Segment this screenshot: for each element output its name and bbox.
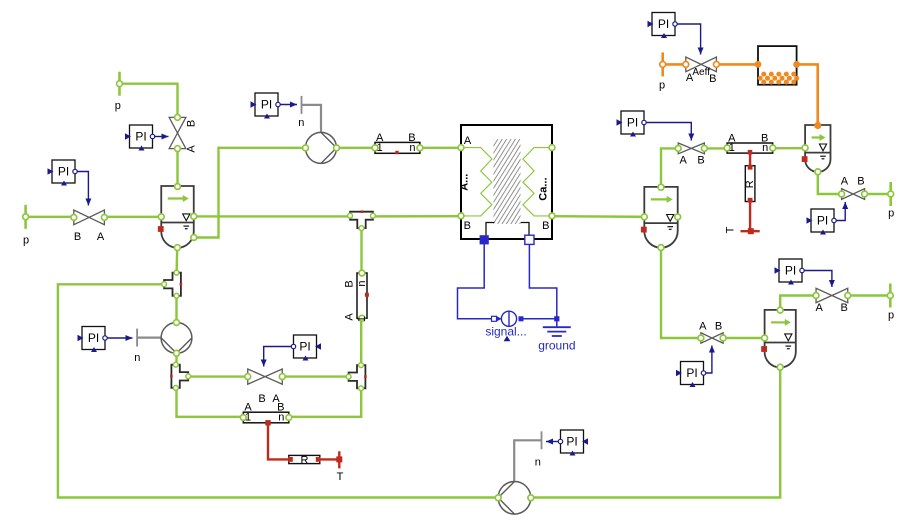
svg-text:1: 1	[356, 316, 368, 322]
sensor PI5	[546, 430, 588, 456]
pipe L1	[372, 132, 423, 154]
wire heat exchanger port B right to header H2	[552, 215, 644, 218]
svg-text:B: B	[258, 393, 265, 405]
svg-text:B: B	[74, 231, 81, 243]
svg-text:n: n	[278, 412, 284, 424]
svg-text:PI: PI	[58, 165, 69, 179]
sensor PI6	[261, 335, 321, 367]
svg-text:PI: PI	[817, 214, 828, 228]
svg-text:B: B	[697, 154, 704, 166]
sensor PI11	[775, 259, 835, 287]
svg-text:R: R	[744, 180, 756, 188]
svg-text:n: n	[298, 117, 304, 129]
wire header H1 top to valve V2	[176, 149, 178, 187]
svg-text:1: 1	[729, 142, 735, 154]
thermal resistor R1	[744, 150, 756, 231]
svg-text:R: R	[301, 454, 309, 466]
sink p6	[887, 284, 894, 322]
svg-text:PI: PI	[627, 116, 638, 130]
svg-text:PI: PI	[658, 17, 669, 31]
svg-text:p: p	[23, 235, 29, 247]
pipe L3	[724, 133, 775, 155]
svg-text:B: B	[186, 120, 198, 127]
sensor PI1	[48, 160, 92, 206]
svg-text:n: n	[535, 457, 541, 469]
source p3	[659, 52, 666, 91]
tank	[755, 46, 800, 85]
source p2	[115, 72, 123, 112]
svg-text:A: A	[841, 175, 849, 187]
svg-text:A: A	[680, 154, 688, 166]
sink p4	[888, 182, 894, 220]
wire valve V8 to tank	[716, 63, 758, 66]
wire flow join T1 to heat exchanger port B left	[373, 215, 461, 218]
svg-text:PI: PI	[785, 264, 796, 278]
header H5	[761, 307, 796, 370]
svg-text:n: n	[356, 280, 368, 286]
svg-text:p: p	[888, 208, 894, 220]
wire valve V6 to sink p6	[848, 294, 891, 296]
svg-text:p: p	[115, 100, 121, 112]
wire p1 to valve V1	[26, 216, 74, 218]
wire heat exchanger pin to signal current source	[458, 244, 492, 319]
svg-text:n: n	[134, 352, 140, 364]
sensor PI4	[78, 327, 133, 353]
wire header H5 top to valve V6	[780, 296, 816, 311]
svg-text:PI: PI	[299, 340, 310, 354]
svg-text:B: B	[542, 220, 549, 232]
valve V7	[675, 143, 707, 166]
header H4	[802, 122, 831, 175]
wire header H2 bottom to valve V5	[661, 248, 701, 338]
wire valve V4 to sink p4	[865, 193, 891, 195]
fixed temperature T2	[336, 451, 343, 483]
flow join T3	[170, 362, 191, 390]
wire header H2 top to valve V7	[661, 148, 678, 187]
svg-text:p: p	[888, 310, 894, 322]
svg-text:A: A	[699, 320, 707, 332]
svg-text:T: T	[725, 226, 737, 233]
sensor PI9	[807, 202, 849, 235]
valve V4	[839, 175, 868, 199]
wire header H1 right to flow join T1	[194, 215, 350, 217]
svg-text:B: B	[464, 220, 471, 232]
wire pipe L3 to header H4	[773, 147, 805, 149]
wire pipe L4 to flow join T4 bottom	[289, 388, 361, 416]
svg-text:PI: PI	[135, 130, 146, 144]
flow join T2	[162, 270, 183, 298]
signal current source	[485, 311, 526, 341]
sensor PI3	[251, 93, 298, 119]
svg-text:p: p	[659, 80, 665, 92]
svg-text:A: A	[464, 135, 472, 147]
svg-text:PI: PI	[261, 98, 272, 112]
sensor PI7	[617, 111, 695, 141]
header H2	[641, 184, 681, 250]
wire valve V1 to header H1	[104, 216, 161, 218]
svg-text:A: A	[343, 313, 355, 321]
wire valve V3 to flow join T4	[282, 375, 349, 377]
svg-text:PI: PI	[686, 366, 697, 380]
svg-text:B: B	[715, 320, 722, 332]
wire header H1 bottom to flow join T2	[175, 248, 178, 273]
svg-text:PI: PI	[88, 331, 99, 345]
wire signal current source to ground node	[524, 318, 557, 320]
pipe L4	[240, 402, 291, 426]
wire valve V2 to source p2	[120, 84, 178, 118]
wire flow join T3 to pipe L4	[177, 387, 244, 416]
fixed temperature T1	[725, 226, 760, 234]
svg-text:A: A	[816, 302, 824, 314]
svg-text:B: B	[343, 280, 355, 287]
source p1	[23, 205, 29, 247]
svg-text:B: B	[841, 302, 848, 314]
wire pipe L1 to heat exchanger port A	[420, 147, 461, 149]
sensor PI2	[125, 125, 169, 151]
sensor PI10	[676, 346, 715, 388]
wire pump P3 to header H5 bottom	[531, 367, 780, 497]
wire pipe L2 to flow join T1 stem	[360, 228, 362, 272]
svg-text:Ca...: Ca...	[538, 177, 550, 200]
wire tank to header H4 top	[797, 64, 818, 125]
wire pump P2 to flow join T3	[175, 353, 177, 365]
svg-text:A: A	[186, 145, 198, 153]
svg-text:T: T	[337, 471, 344, 483]
ground	[538, 316, 575, 352]
svg-text:n: n	[762, 142, 768, 154]
svg-text:A: A	[97, 231, 105, 243]
wire valve V7 to pipe L3	[704, 147, 727, 149]
wire flow join T2 to pump P2	[175, 296, 177, 323]
wire pump P1 to pipe L1	[337, 147, 376, 149]
flow join T4	[346, 363, 367, 391]
svg-text:signal...: signal...	[485, 325, 526, 339]
svg-text:PI: PI	[566, 435, 577, 449]
heat exchanger U1	[440, 125, 572, 244]
wire header H4 bottom to valve V4	[818, 172, 842, 194]
svg-text:A: A	[686, 72, 694, 84]
valve V6	[813, 288, 851, 314]
wire header H1 to pump P1 suction	[194, 148, 306, 238]
pump P1	[298, 96, 339, 163]
svg-text:B: B	[857, 175, 864, 187]
wire flow join T2 left down around to pump P3	[58, 284, 498, 497]
valve V3	[245, 369, 285, 405]
wire flow join T3 to valve V3	[188, 375, 248, 377]
valve V1	[71, 210, 107, 243]
svg-text:1: 1	[245, 412, 251, 424]
header H1	[158, 184, 197, 251]
svg-text:B: B	[709, 73, 716, 85]
wire source p3 to valve V8	[663, 63, 686, 66]
svg-text:Aeff: Aeff	[692, 67, 710, 78]
wire pipe L2 to flow join T4	[360, 318, 362, 365]
svg-text:A...: A...	[458, 174, 470, 191]
wire heat exchanger pin to ground node	[529, 244, 556, 319]
svg-text:1: 1	[377, 142, 383, 154]
pump P2	[134, 320, 192, 364]
wire valve V5 to header H5	[723, 337, 765, 339]
valve V2	[169, 115, 197, 153]
svg-text:ground: ground	[538, 339, 575, 353]
valve V8 Aeff	[683, 57, 719, 85]
pump P3	[495, 431, 541, 514]
thermal resistor R2	[268, 423, 339, 466]
valve V5	[698, 320, 726, 343]
sensor PI8	[648, 13, 704, 55]
pipe L2	[343, 270, 369, 322]
flow join T1	[348, 210, 376, 230]
svg-text:n: n	[409, 142, 415, 154]
